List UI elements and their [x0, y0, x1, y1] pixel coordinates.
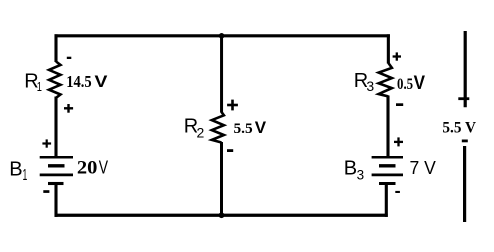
svg-text:V: V	[255, 118, 267, 137]
wire left branch bottom lead	[54, 184, 57, 217]
resistor R2	[212, 112, 224, 143]
battery B3 plate long top	[372, 156, 403, 159]
wire left branch middle lead	[54, 97, 57, 157]
polarity minus below R3	[396, 103, 403, 106]
wire middle branch lower lead	[220, 142, 223, 217]
svg-text:3: 3	[357, 167, 365, 182]
polarity minus below B1	[43, 190, 49, 193]
battery B1 plate short bottom	[48, 182, 64, 185]
value label 0.5V across R3	[397, 72, 425, 94]
polarity plus above R2	[227, 100, 238, 111]
value label 14.5 V across R1	[66, 72, 108, 91]
label B1	[9, 159, 27, 184]
label R2	[184, 116, 205, 141]
polarity plus on upper probe wire	[458, 97, 469, 100]
battery B3 plate short bottom	[379, 182, 396, 185]
svg-text:V: V	[99, 157, 108, 177]
svg-text:3: 3	[366, 78, 374, 94]
resistor R3	[379, 63, 392, 96]
resistor R1	[49, 62, 61, 98]
svg-text:B: B	[344, 158, 357, 180]
label B3	[344, 158, 364, 183]
wire top rail	[55, 34, 390, 37]
probe wire lower right	[463, 146, 466, 222]
battery B1 plate long lower	[40, 173, 73, 176]
svg-text:V: V	[414, 72, 425, 94]
svg-text:7 V: 7 V	[410, 158, 436, 178]
polarity minus above lower probe wire	[462, 140, 468, 143]
svg-text:5.5 V: 5.5 V	[442, 120, 476, 137]
polarity plus above R3	[393, 52, 401, 60]
probe wire upper right	[464, 31, 467, 107]
battery B1 plate short	[48, 164, 65, 167]
battery B3 plate short	[379, 164, 396, 167]
svg-text:2: 2	[197, 125, 205, 141]
polarity minus below R2	[227, 149, 233, 152]
svg-text:20: 20	[77, 157, 98, 178]
label R1	[24, 71, 42, 95]
label R3	[354, 70, 375, 94]
polarity plus above B1	[42, 139, 51, 147]
value label 5.5V across R2	[234, 118, 267, 137]
svg-text:1: 1	[23, 167, 28, 184]
svg-text:B: B	[9, 159, 22, 181]
wire right branch bottom lead	[385, 184, 388, 217]
wire left branch upper lead	[54, 34, 57, 62]
battery B1 plate long top	[40, 156, 73, 159]
svg-text:14.5: 14.5	[66, 72, 91, 91]
wire right branch upper lead	[387, 34, 390, 63]
wire middle branch upper lead	[220, 34, 223, 112]
polarity plus below R1	[64, 104, 73, 113]
polarity plus above B3	[394, 137, 403, 146]
node junction top (dot)	[219, 33, 225, 39]
battery B3 plate long lower	[372, 173, 403, 176]
polarity minus above R1	[67, 57, 72, 59]
svg-text:1: 1	[37, 79, 42, 94]
wire right branch middle lead	[386, 96, 389, 157]
svg-text:5.5: 5.5	[234, 121, 253, 137]
value label 20 V for B1	[77, 157, 108, 178]
polarity minus below B3	[395, 191, 400, 193]
wire bottom rail	[55, 214, 388, 217]
node junction bottom (dot)	[219, 212, 225, 218]
svg-text:V: V	[95, 72, 109, 91]
svg-text:0.5: 0.5	[397, 76, 413, 93]
